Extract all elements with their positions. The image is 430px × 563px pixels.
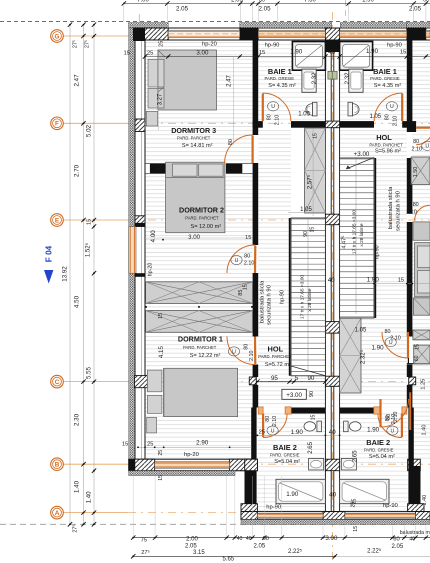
- svg-text:25: 25: [158, 41, 164, 47]
- svg-text:HOL: HOL: [267, 345, 283, 354]
- svg-text:BAIE 2: BAIE 2: [366, 438, 390, 447]
- svg-text:DORMITOR 1: DORMITOR 1: [178, 335, 223, 344]
- svg-text:25: 25: [351, 502, 357, 508]
- svg-text:17 tr x h 17.65 =3.00: 17 tr x h 17.65 =3.00: [352, 210, 358, 254]
- svg-text:F 04: F 04: [45, 245, 54, 262]
- svg-text:15: 15: [313, 133, 319, 139]
- svg-text:2.05: 2.05: [176, 5, 189, 12]
- pier B right: [230, 459, 256, 471]
- level box +3.00: [282, 389, 306, 399]
- svg-text:15: 15: [123, 50, 129, 56]
- svg-text:PARD. PARCHET: PARD. PARCHET: [369, 142, 403, 147]
- svg-text:1.05: 1.05: [355, 328, 367, 334]
- svg-text:25: 25: [147, 442, 153, 448]
- door right edge upper: [416, 128, 430, 145]
- svg-text:DORMITOR 3: DORMITOR 3: [171, 126, 216, 135]
- svg-text:27⁵: 27⁵: [141, 549, 150, 556]
- svg-text:60: 60: [414, 355, 420, 361]
- floor BAIE 2 right: [340, 414, 408, 512]
- svg-text:15: 15: [158, 475, 164, 481]
- window left wall hp-20: [129, 227, 136, 274]
- party wall hatched pier: [325, 322, 339, 334]
- svg-text:1.90: 1.90: [371, 345, 384, 352]
- svg-text:PARD. PARCHET: PARD. PARCHET: [177, 135, 211, 140]
- svg-text:1.25: 1.25: [420, 379, 426, 390]
- BAIE 1 right bottom wall a: [402, 121, 412, 128]
- bed DORMITOR 2: [166, 162, 225, 233]
- svg-text:80: 80: [265, 416, 271, 422]
- balustrade glass right: [374, 158, 376, 318]
- svg-text:BAIE 2: BAIE 2: [273, 443, 297, 452]
- BAIE 2 left top wall b: [285, 408, 325, 414]
- top wall pier right: [407, 28, 426, 40]
- svg-text:3.00: 3.00: [325, 535, 338, 542]
- door BAIE 1 left: [263, 93, 291, 121]
- BAIE 1 left bottom wall b: [291, 121, 325, 128]
- svg-text:2.57⁵: 2.57⁵: [307, 174, 314, 189]
- svg-text:80: 80: [413, 202, 419, 208]
- red dashed boundary line: [0, 21, 430, 23]
- svg-text:1.90: 1.90: [362, 0, 374, 4]
- svg-text:1.90: 1.90: [367, 277, 380, 284]
- floor landing right: [340, 128, 374, 160]
- bottom dimension rows: [133, 537, 430, 539]
- svg-text:U: U: [232, 349, 236, 355]
- door DORMITOR 2: [227, 245, 255, 273]
- shower BAIE 1: [292, 42, 325, 71]
- svg-text:4.00: 4.00: [150, 230, 157, 243]
- svg-text:securizata h 90: securizata h 90: [267, 284, 273, 325]
- BAIE 2 left top wall a: [258, 408, 263, 414]
- door jamb: [285, 407, 291, 414]
- axis left wall: [138, 14, 140, 470]
- pier axis F: [135, 119, 145, 132]
- svg-text:2.05: 2.05: [185, 544, 197, 550]
- grid bubbles: [51, 30, 64, 43]
- svg-text:80: 80: [267, 114, 273, 120]
- pier B interior left: [245, 459, 258, 471]
- wardrobe DORMITOR 1 (X boxes): [146, 282, 253, 304]
- interior wall left unit: [253, 40, 259, 135]
- vanity BAIE 2: [309, 458, 324, 470]
- nightstand D3: [146, 111, 157, 126]
- insulation below BAIE 2 block: [241, 520, 430, 525]
- svg-text:80: 80: [413, 139, 419, 145]
- svg-text:+3.00: +3.00: [354, 151, 370, 158]
- svg-text:2.65: 2.65: [308, 441, 314, 453]
- nightstand D1: [147, 417, 157, 433]
- svg-text:2.05: 2.05: [392, 544, 404, 550]
- pier C interior right: [409, 377, 416, 385]
- svg-text:hp-20: hp-20: [148, 263, 154, 277]
- svg-text:1.05: 1.05: [300, 207, 312, 213]
- door BAIE 2 left: [263, 414, 287, 438]
- svg-text:2.10: 2.10: [391, 414, 397, 425]
- svg-text:2.47: 2.47: [74, 74, 81, 87]
- stair break line left: [291, 366, 325, 376]
- svg-text:hp-20: hp-20: [184, 452, 199, 458]
- svg-text:S= 12.22 m²: S= 12.22 m²: [190, 353, 221, 359]
- corner block top-left: [133, 28, 145, 41]
- door DORMITOR 3: [225, 135, 253, 163]
- window sill cap: [135, 273, 145, 277]
- svg-text:F: F: [55, 121, 59, 128]
- svg-text:7.50: 7.50: [304, 0, 316, 4]
- svg-text:80: 80: [244, 344, 250, 350]
- partition D3/D2 left nib: [150, 163, 166, 173]
- insulation below bottom wall: [129, 471, 235, 476]
- svg-text:2.10: 2.10: [272, 416, 278, 427]
- bathtub BAIE 2: [340, 479, 389, 503]
- right room bottom wall line: [407, 363, 430, 365]
- svg-text:U: U: [391, 428, 395, 434]
- svg-text:S= 12.00 m²: S= 12.00 m²: [190, 224, 221, 230]
- bathtub BAIE 2: [276, 479, 325, 503]
- svg-text:PARD. PARCHET: PARD. PARCHET: [183, 345, 217, 350]
- svg-text:60: 60: [393, 537, 399, 543]
- top wall party pier: [325, 28, 339, 40]
- svg-text:1.90: 1.90: [290, 49, 303, 56]
- vanity BAIE 2: [341, 458, 356, 470]
- svg-text:S=5.04 m²: S=5.04 m²: [274, 459, 300, 465]
- axis party wall: [332, 12, 334, 563]
- bottom wall BAIE 2 block: [241, 512, 430, 520]
- pillow: [173, 164, 198, 176]
- svg-text:PARD. PARCHET: PARD. PARCHET: [185, 216, 219, 221]
- dim line 95-5-90: [257, 381, 291, 383]
- svg-text:S=5.96 m²: S=5.96 m²: [375, 148, 401, 154]
- window BAIE 1 left hp-90: [258, 30, 325, 37]
- party wall hatched pier: [325, 459, 339, 471]
- svg-text:hp-20: hp-20: [202, 42, 217, 48]
- svg-text:2.10: 2.10: [390, 336, 401, 342]
- svg-text:B: B: [55, 462, 60, 469]
- shaft green: [328, 71, 333, 79]
- floor corridor left: [258, 128, 291, 408]
- svg-text:40: 40: [328, 49, 335, 56]
- svg-text:40: 40: [329, 491, 336, 498]
- grid axis rows: [63, 35, 128, 37]
- svg-text:HOL: HOL: [376, 133, 392, 142]
- svg-text:80: 80: [244, 254, 250, 260]
- pillow: [147, 370, 162, 392]
- svg-text:BAIE 1: BAIE 1: [373, 67, 397, 76]
- WC toilet horizontal: [344, 421, 349, 432]
- window BAIE 2 left hp-90: [257, 513, 323, 518]
- svg-text:1.52⁵: 1.52⁵: [85, 242, 92, 257]
- interior wall right unit: [407, 40, 413, 121]
- svg-text:85: 85: [238, 289, 244, 295]
- party wall hatched pier: [325, 121, 339, 128]
- top wall corner pier: [133, 28, 168, 40]
- party wall 40cm: [325, 40, 331, 512]
- svg-text:60: 60: [423, 0, 429, 4]
- svg-text:40: 40: [329, 429, 336, 436]
- svg-text:2.10: 2.10: [275, 115, 281, 126]
- pillow: [148, 59, 164, 87]
- svg-text:75: 75: [141, 537, 147, 543]
- svg-text:balustrada sticla: balustrada sticla: [260, 280, 266, 323]
- right wardrobe wall line: [407, 330, 409, 364]
- svg-text:1.40: 1.40: [422, 495, 428, 506]
- right unit wall corner: [407, 121, 416, 132]
- svg-text:2.05: 2.05: [409, 5, 422, 12]
- svg-text:3.15: 3.15: [193, 550, 205, 556]
- svg-text:PARD. GRESIE: PARD. GRESIE: [270, 453, 300, 458]
- svg-text:1.50: 1.50: [413, 167, 419, 178]
- svg-text:40: 40: [246, 536, 252, 542]
- svg-text:90: 90: [309, 391, 315, 397]
- extension lines bottom: [132, 476, 134, 536]
- svg-text:4.15: 4.15: [158, 346, 165, 359]
- svg-text:80: 80: [385, 114, 391, 120]
- svg-text:x 28 latime: x 28 latime: [307, 288, 313, 312]
- svg-text:80: 80: [228, 139, 234, 145]
- door post right lower: [409, 392, 411, 430]
- svg-text:15: 15: [122, 442, 128, 448]
- svg-text:balustrada sticla: balustrada sticla: [388, 186, 394, 229]
- svg-text:90: 90: [303, 231, 309, 237]
- pier B corner: [135, 459, 155, 471]
- washbasin cabinet BAIE 1: [302, 69, 316, 92]
- svg-text:S=5.04 m²: S=5.04 m²: [369, 454, 395, 460]
- window bottom wall hp-20: [155, 462, 230, 468]
- bed DORMITOR 1: [164, 368, 238, 416]
- pier B interior right: [408, 459, 421, 471]
- floor DORMITOR 1: [145, 285, 253, 459]
- svg-text:15: 15: [415, 344, 421, 350]
- svg-text:27⁵: 27⁵: [85, 40, 91, 48]
- svg-text:2.05: 2.05: [254, 544, 266, 550]
- svg-text:U: U: [390, 104, 394, 110]
- pier axis E: [135, 216, 145, 227]
- svg-text:15: 15: [158, 313, 164, 319]
- door jamb: [258, 407, 263, 414]
- svg-text:25: 25: [147, 50, 153, 56]
- svg-text:hp-90: hp-90: [387, 43, 402, 49]
- window right cut: [426, 30, 430, 37]
- svg-text:40: 40: [328, 277, 335, 284]
- svg-text:15: 15: [400, 50, 406, 56]
- svg-text:15: 15: [353, 526, 359, 532]
- staircase right unit: [340, 158, 374, 318]
- svg-text:17 tr x h 17.65 =3.00: 17 tr x h 17.65 =3.00: [300, 275, 306, 319]
- svg-text:S= 4.35 m²: S= 4.35 m²: [268, 83, 296, 89]
- svg-text:x 28 latime: x 28 latime: [359, 223, 365, 247]
- svg-text:2.05: 2.05: [258, 5, 271, 12]
- svg-text:15: 15: [156, 164, 162, 170]
- staircase left unit: [291, 218, 325, 376]
- svg-text:2.22⁵: 2.22⁵: [288, 548, 303, 555]
- svg-text:PARD. GRESIE: PARD. GRESIE: [370, 76, 400, 81]
- svg-text:hp-90: hp-90: [280, 290, 286, 304]
- svg-text:7.00: 7.00: [137, 0, 149, 4]
- svg-text:E: E: [55, 217, 60, 224]
- floor HOL left: [258, 330, 325, 408]
- stair walk line left: [307, 218, 309, 372]
- svg-text:U: U: [271, 428, 275, 434]
- svg-text:3.00: 3.00: [188, 234, 201, 241]
- washbasin cabinet BAIE 1: [349, 69, 363, 92]
- WC toilet horizontal: [317, 421, 322, 432]
- top wall band: [129, 28, 430, 40]
- svg-text:2.90: 2.90: [196, 440, 209, 447]
- svg-text:U: U: [271, 104, 275, 110]
- svg-text:1.40: 1.40: [86, 491, 93, 504]
- left wall cavity: [135, 40, 145, 459]
- svg-text:40: 40: [409, 537, 415, 543]
- pier C interior: [249, 377, 256, 385]
- svg-text:2.10: 2.10: [412, 146, 423, 152]
- svg-text:hp-90: hp-90: [265, 43, 280, 49]
- stair arrow right: [346, 158, 374, 170]
- svg-text:60: 60: [259, 0, 265, 4]
- svg-text:S=5.72 m²: S=5.72 m²: [265, 362, 291, 368]
- pillow: [148, 89, 164, 108]
- entry jog wall: [245, 466, 253, 512]
- svg-text:2.32⁵: 2.32⁵: [360, 349, 367, 364]
- BAIE 1 right bottom wall b: [340, 121, 374, 128]
- door DORMITOR right (into hall): [382, 332, 408, 358]
- svg-text:A: A: [55, 510, 60, 517]
- floor DORMITOR 3: [145, 40, 253, 163]
- party wall hatched pier: [325, 214, 339, 225]
- floor right rooms (cut): [412, 40, 430, 459]
- svg-text:1.05: 1.05: [298, 111, 310, 117]
- pillow: [147, 395, 162, 413]
- svg-text:95: 95: [271, 375, 278, 382]
- svg-text:90: 90: [307, 375, 314, 382]
- floor BAIE 1 right: [340, 40, 407, 121]
- svg-text:DORMITOR 2: DORMITOR 2: [179, 205, 224, 214]
- door BAIE 1 right: [374, 93, 402, 121]
- closet with X next to stair left: [305, 128, 326, 213]
- svg-text:2.65: 2.65: [352, 450, 358, 462]
- floor BAIE 1 left: [258, 40, 325, 121]
- svg-text:2.10: 2.10: [244, 261, 255, 267]
- blue triangle: [44, 270, 53, 284]
- insulation left wall: [129, 28, 135, 471]
- svg-text:PARD. PARCHET: PARD. PARCHET: [258, 354, 292, 359]
- pier axis C: [135, 376, 148, 388]
- floor right hall lower: [340, 318, 407, 408]
- party wall hatched pier: [325, 376, 339, 386]
- svg-text:4.50: 4.50: [74, 295, 81, 308]
- svg-text:15: 15: [311, 415, 317, 421]
- svg-text:C: C: [55, 379, 60, 386]
- svg-text:2.10: 2.10: [392, 116, 398, 127]
- closet with X next to stair right (below stair): [340, 318, 361, 393]
- svg-text:G: G: [55, 33, 60, 40]
- svg-text:5.65: 5.65: [222, 557, 234, 563]
- svg-text:15: 15: [259, 50, 265, 56]
- svg-text:60: 60: [263, 536, 269, 542]
- svg-text:5.55: 5.55: [86, 366, 93, 379]
- BAIE 1 left bottom wall a: [253, 121, 263, 128]
- right edge furniture (right unit, cut): [411, 157, 430, 184]
- svg-text:2.30: 2.30: [74, 413, 81, 426]
- svg-text:BAIE 1: BAIE 1: [268, 67, 292, 76]
- svg-text:2.22⁵: 2.22⁵: [367, 547, 382, 554]
- svg-text:2.32: 2.32: [345, 72, 351, 84]
- svg-text:+3.00: +3.00: [286, 392, 302, 399]
- floor BAIE 2 left: [257, 414, 325, 512]
- door BAIE 2 right: [378, 414, 402, 438]
- door DORMITOR 1: [227, 337, 255, 365]
- svg-text:PARD. GRESIE: PARD. GRESIE: [265, 76, 295, 81]
- shower BAIE 1: [340, 42, 373, 71]
- balustrade glass left: [289, 218, 291, 376]
- window BAIE 1 right hp-90: [340, 30, 407, 37]
- svg-text:1.05: 1.05: [369, 114, 381, 120]
- BAIE 2 right wall: [408, 408, 413, 512]
- svg-text:40: 40: [237, 536, 243, 542]
- svg-text:1.90: 1.90: [286, 491, 299, 498]
- svg-text:hp-90: hp-90: [266, 504, 281, 510]
- svg-text:15: 15: [310, 227, 316, 233]
- U symbols at doors: [268, 102, 279, 111]
- pillow: [199, 164, 223, 176]
- svg-text:hp-90: hp-90: [375, 245, 381, 259]
- window BAIE 2 right hp-90: [345, 513, 416, 518]
- svg-text:1.40: 1.40: [74, 480, 81, 493]
- svg-text:25: 25: [259, 430, 265, 436]
- svg-text:2.05: 2.05: [231, 0, 243, 4]
- door right edge mid: [415, 205, 430, 220]
- svg-text:27⁵: 27⁵: [73, 40, 79, 48]
- svg-text:15: 15: [226, 164, 232, 170]
- svg-text:15: 15: [242, 284, 248, 290]
- bottom wall left unit: [129, 459, 258, 471]
- window DORMITOR 3 top hp-20: [168, 30, 240, 37]
- partition D3/D2 right nib: [226, 163, 242, 173]
- svg-text:PARD. GRESIE: PARD. GRESIE: [364, 447, 394, 452]
- svg-text:2.00: 2.00: [186, 537, 198, 543]
- svg-text:15: 15: [87, 219, 93, 225]
- svg-text:1.90: 1.90: [291, 429, 304, 436]
- door right lower: [381, 399, 409, 427]
- svg-text:2.47: 2.47: [227, 75, 233, 87]
- bottom gray dashed line: [0, 523, 430, 525]
- svg-text:1.90: 1.90: [366, 48, 379, 55]
- svg-text:hp-90: hp-90: [383, 503, 398, 509]
- svg-text:S= 4.35 m²: S= 4.35 m²: [374, 83, 402, 89]
- svg-text:1.90: 1.90: [367, 426, 380, 433]
- top wall pier between windows: [240, 28, 258, 40]
- svg-text:2.10: 2.10: [249, 350, 255, 361]
- svg-text:5: 5: [295, 375, 299, 382]
- insulation top: [129, 23, 169, 28]
- top dimension row: [124, 3, 430, 5]
- BAIE 2 left wall: [251, 408, 256, 512]
- WC toilet BAIE 1 right: [348, 102, 353, 116]
- svg-text:2.10: 2.10: [406, 210, 417, 216]
- floor DORMITOR 2: [145, 174, 253, 285]
- svg-text:2.32: 2.32: [312, 72, 318, 84]
- svg-text:13.92: 13.92: [62, 266, 69, 282]
- dim line under top windows: [145, 56, 430, 58]
- svg-text:5.02: 5.02: [86, 124, 93, 137]
- svg-text:U: U: [425, 144, 429, 150]
- WC toilet BAIE 1 left: [313, 102, 318, 116]
- svg-text:3.00: 3.00: [196, 49, 209, 56]
- svg-text:80: 80: [385, 329, 391, 335]
- svg-text:S= 14.81 m²: S= 14.81 m²: [182, 143, 213, 149]
- bed DORMITOR 3: [158, 50, 217, 110]
- svg-text:U: U: [235, 258, 239, 264]
- svg-text:2.70: 2.70: [74, 164, 81, 177]
- svg-text:27⁵: 27⁵: [73, 524, 79, 532]
